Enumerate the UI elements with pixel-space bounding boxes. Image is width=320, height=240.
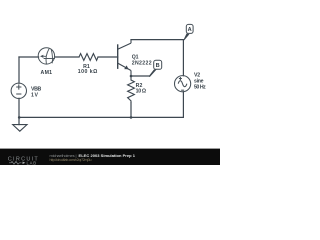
svg-text:B: B bbox=[156, 63, 160, 69]
wire right vertical bottom (V2 to bottom rail) bbox=[182, 92, 184, 118]
resistor R1 bbox=[79, 54, 98, 61]
junction dot R2 bottom bbox=[130, 116, 133, 119]
svg-text:LAB: LAB bbox=[27, 160, 37, 165]
transistor Q1 emitter arrow bbox=[124, 65, 128, 69]
wire left vertical (VBB top to corner) bbox=[18, 57, 20, 83]
source V2 (sine) bbox=[175, 76, 191, 92]
svg-text:10 Ω: 10 Ω bbox=[136, 89, 147, 95]
watermark bar bbox=[0, 149, 220, 165]
svg-text:50 Hz: 50 Hz bbox=[194, 85, 206, 91]
wire R1 to Q1 base bbox=[98, 56, 118, 58]
wire emitter junction to B flag bbox=[131, 75, 149, 77]
node A flag bbox=[183, 24, 193, 40]
svg-text:http://circuitlab.com/c2qr72mj: http://circuitlab.com/c2qr72mj3u bbox=[50, 158, 92, 162]
wire right vertical top (corner to V2) bbox=[182, 40, 184, 76]
transistor Q1 bbox=[118, 40, 131, 76]
wire bottom rail bbox=[19, 116, 183, 118]
resistor R2 bbox=[128, 76, 135, 103]
svg-text:Q1: Q1 bbox=[132, 54, 139, 60]
source VBB bbox=[11, 83, 26, 98]
svg-text:100 kΩ: 100 kΩ bbox=[78, 69, 98, 75]
wire collector to node A corner bbox=[131, 39, 183, 41]
svg-text:1 V: 1 V bbox=[31, 92, 39, 98]
CircuitLab logo zigzag bbox=[9, 161, 22, 164]
wire top-left horizontal (corner to ammeter) bbox=[19, 56, 39, 58]
ammeter AM1 bbox=[38, 48, 55, 64]
node B flag bbox=[149, 60, 162, 77]
svg-text:AM1: AM1 bbox=[41, 70, 53, 76]
wire R2 bottom lead bbox=[130, 103, 132, 118]
svg-text:V2: V2 bbox=[194, 72, 200, 78]
svg-text:2N2222: 2N2222 bbox=[132, 61, 152, 67]
ground bbox=[13, 125, 27, 132]
wire VBB bottom to ground junction bbox=[18, 98, 20, 124]
svg-text:A: A bbox=[188, 27, 192, 33]
junction dot emitter/R2/B bbox=[130, 75, 133, 78]
ammeter AM1 arrow bbox=[40, 55, 43, 58]
junction dot VBB/ground bbox=[18, 116, 21, 119]
wire ammeter to R1 bbox=[55, 56, 79, 58]
